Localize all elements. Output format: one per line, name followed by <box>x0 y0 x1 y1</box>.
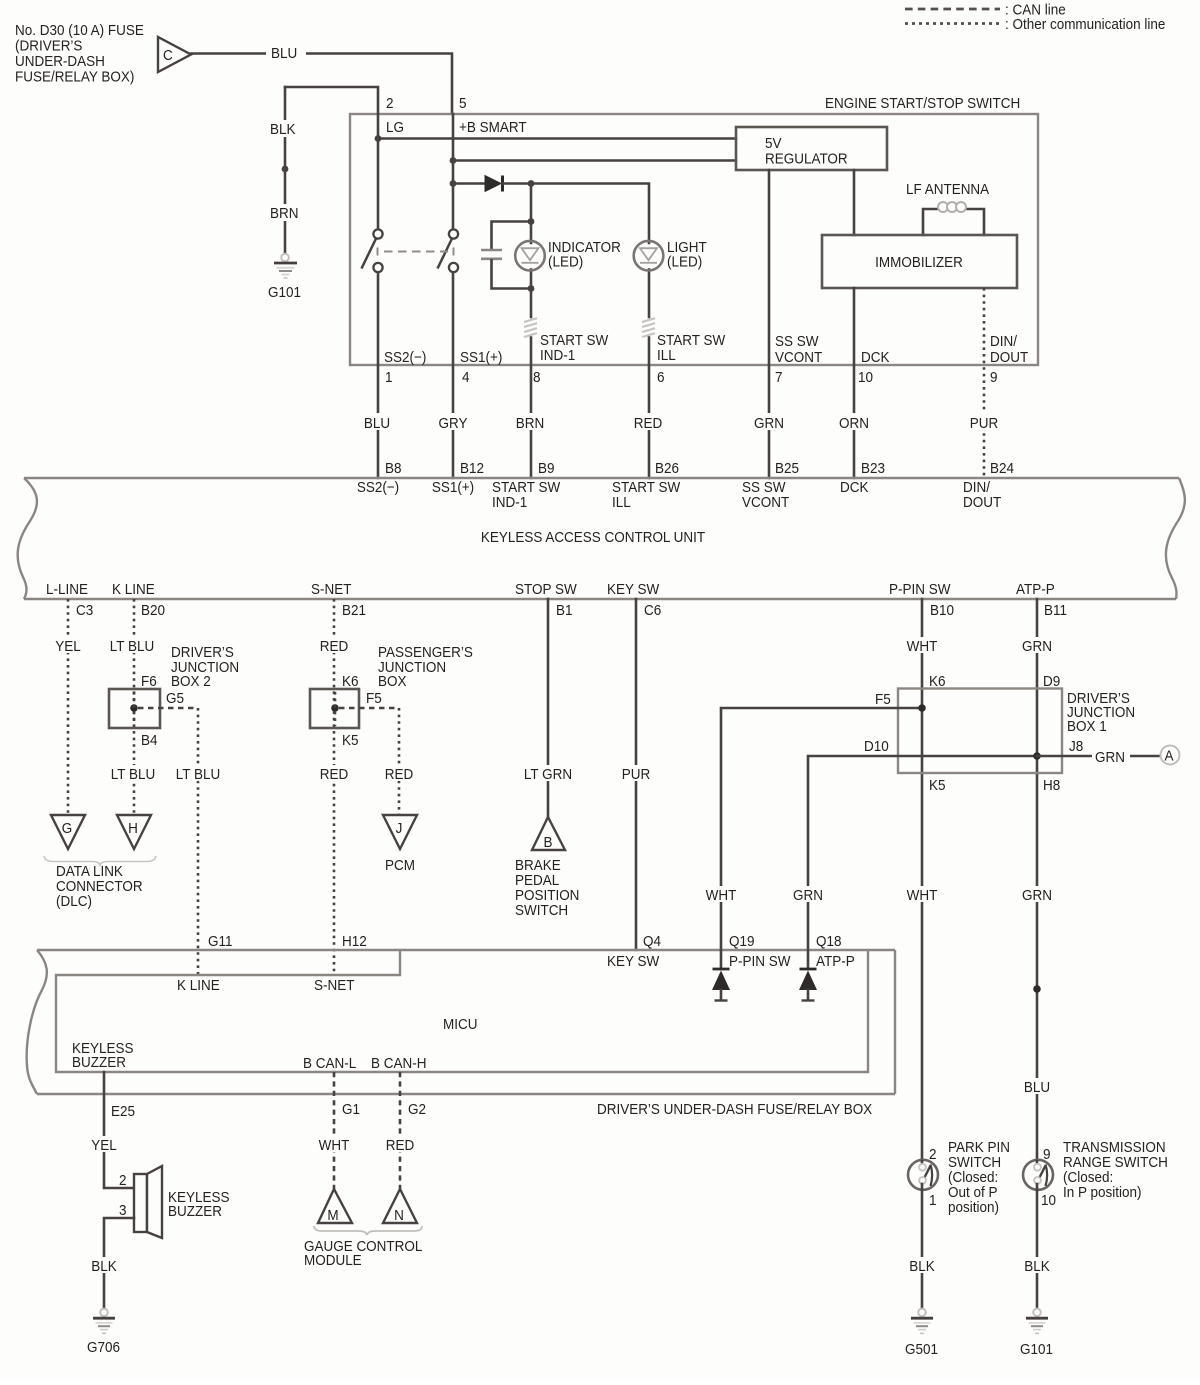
svg-text:B8: B8 <box>385 460 402 477</box>
legend CAN line sample <box>905 2 1066 19</box>
wire label LT BLU (to G11) <box>171 765 225 783</box>
svg-text:BUZZER: BUZZER <box>72 1054 126 1071</box>
svg-text:K LINE: K LINE <box>112 581 155 598</box>
svg-text:RED: RED <box>386 1137 414 1154</box>
svg-text:G5: G5 <box>166 690 184 707</box>
wire label BLK (park pin) <box>904 1257 940 1275</box>
wire label LT BLU (K LINE upper) <box>105 637 159 655</box>
svg-text:RED: RED <box>634 415 662 432</box>
keyless access control unit box <box>18 478 1185 599</box>
wire label RED (to H12) <box>316 765 353 783</box>
svg-text:B: B <box>543 834 552 851</box>
svg-text:2: 2 <box>929 1146 937 1163</box>
svg-text:F6: F6 <box>141 673 157 690</box>
connector B <box>532 817 565 851</box>
svg-text:+B SMART: +B SMART <box>459 119 527 136</box>
wire label BLK (trans range) <box>1019 1257 1055 1275</box>
svg-text:Q19: Q19 <box>729 933 755 950</box>
pin 5 label <box>459 95 527 136</box>
diode D1 <box>485 176 503 192</box>
svg-text:2: 2 <box>386 95 394 112</box>
wire light led to resistor <box>648 270 651 318</box>
svg-text:C: C <box>163 47 173 64</box>
svg-text:1: 1 <box>385 369 393 386</box>
svg-text:WHT: WHT <box>319 1137 350 1154</box>
svg-text:GRN: GRN <box>754 415 784 432</box>
wire label LT BLU (to H) <box>106 765 160 783</box>
svg-text:BOX 2: BOX 2 <box>171 673 211 690</box>
svg-text:LT BLU: LT BLU <box>176 766 220 783</box>
svg-text:D10: D10 <box>864 738 889 755</box>
wire J8 to connector A <box>1037 755 1159 758</box>
node capacitor top branch <box>528 218 535 225</box>
svg-text:9: 9 <box>1043 1146 1051 1163</box>
svg-text:F5: F5 <box>875 691 891 708</box>
switch SS1 <box>438 229 459 272</box>
wire B CAN-L dashed (G1) <box>333 1072 336 1189</box>
park pin switch SW1 <box>908 1160 938 1190</box>
connector A <box>1161 746 1180 765</box>
svg-text:10: 10 <box>858 369 873 386</box>
svg-text:N: N <box>394 1207 404 1224</box>
svg-text:LF ANTENNA: LF ANTENNA <box>906 181 990 198</box>
pin SS2(-) label <box>384 349 426 386</box>
svg-text:UNDER-DASH: UNDER-DASH <box>15 53 105 70</box>
svg-text:A: A <box>1164 748 1173 765</box>
svg-text:GRN: GRN <box>1022 638 1052 655</box>
immobilizer U2 <box>822 235 1017 288</box>
svg-text:YEL: YEL <box>91 1137 117 1154</box>
svg-text:YEL: YEL <box>55 638 81 655</box>
wire K LINE dotted <box>133 599 136 815</box>
pin DIN/DOUT label <box>990 333 1028 386</box>
5V regulator U1 <box>736 127 887 170</box>
svg-text:K LINE: K LINE <box>177 977 220 994</box>
svg-text:SS2(−): SS2(−) <box>384 349 426 366</box>
svg-text:GRN: GRN <box>793 887 823 904</box>
svg-text:B26: B26 <box>655 460 679 477</box>
wire SS2 lower to pin1/B8 <box>377 272 380 478</box>
wire label GRN (J8) <box>1092 747 1130 766</box>
svg-text:KEYLESS ACCESS CONTROL UNIT: KEYLESS ACCESS CONTROL UNIT <box>481 529 706 546</box>
svg-text:LT BLU: LT BLU <box>111 766 155 783</box>
wire label PUR (DIN/DOUT) <box>966 413 1002 432</box>
legend other communication line sample <box>905 16 1165 33</box>
svg-text:DOUT: DOUT <box>990 349 1028 366</box>
wire STOP SW <box>547 599 550 817</box>
LED light <box>634 239 707 270</box>
svg-text:2: 2 <box>119 1172 127 1189</box>
svg-text:P-PIN SW: P-PIN SW <box>729 953 791 970</box>
node box1 K6 splice <box>918 704 926 712</box>
wire label GRN (ATP-P upper) <box>1018 637 1056 655</box>
wire diode branch <box>453 182 485 185</box>
transmission range switch label <box>1063 1139 1168 1201</box>
connector J <box>383 815 417 849</box>
wire buzzer pin3 to ground <box>104 1218 134 1308</box>
svg-text:WHT: WHT <box>907 638 938 655</box>
svg-text:G101: G101 <box>1020 1341 1053 1358</box>
wire BLU from connector C to pin 5 <box>191 44 452 114</box>
svg-text:S-NET: S-NET <box>311 581 352 598</box>
wire LG to 5V regulator <box>378 137 736 140</box>
wire DIN/DOUT dotted to pin9/B24 <box>983 288 986 478</box>
engine start/stop switch box <box>350 95 1038 365</box>
junction dot BLK/BRN <box>282 166 289 173</box>
node box1 D9 splice <box>1033 752 1041 760</box>
svg-text:B25: B25 <box>775 460 799 477</box>
wire capacitor top branch <box>492 222 532 249</box>
svg-text:J: J <box>396 820 403 837</box>
svg-text:B1: B1 <box>556 602 573 619</box>
svg-text:1: 1 <box>929 1192 937 1209</box>
svg-text:PUR: PUR <box>622 766 650 783</box>
svg-text:BUZZER: BUZZER <box>168 1203 222 1220</box>
svg-text:DCK: DCK <box>840 479 869 496</box>
svg-text:LT GRN: LT GRN <box>524 766 572 783</box>
svg-text:KEY SW: KEY SW <box>607 953 660 970</box>
wire +B to 5V regulator <box>453 159 736 162</box>
node capacitor bottom junction <box>528 285 535 292</box>
svg-text:(DRIVER’S: (DRIVER’S <box>15 38 82 55</box>
wire trans range to ground <box>1036 1184 1039 1309</box>
svg-text:BLK: BLK <box>270 121 296 138</box>
svg-text:G: G <box>62 820 72 837</box>
svg-text:BLU: BLU <box>271 45 297 62</box>
svg-text:DOUT: DOUT <box>963 494 1001 511</box>
svg-text:(LED): (LED) <box>667 254 702 271</box>
svg-text:BRN: BRN <box>516 415 544 432</box>
svg-text:G706: G706 <box>87 1339 120 1356</box>
svg-text:BLK: BLK <box>909 1258 935 1275</box>
svg-text:B CAN-H: B CAN-H <box>371 1055 426 1072</box>
wire label GRN (Q18) <box>789 886 827 904</box>
wire label GRY (SS1) <box>434 413 472 432</box>
wire park pin to ground <box>921 1184 924 1309</box>
svg-text:WHT: WHT <box>706 887 737 904</box>
svg-text:position): position) <box>948 1199 999 1216</box>
svg-text:BLK: BLK <box>91 1258 117 1275</box>
svg-text:IMMOBILIZER: IMMOBILIZER <box>875 254 963 271</box>
wire DCK immobilizer to pin10/B23 <box>853 288 856 478</box>
wire S-NET dotted <box>333 599 336 975</box>
gauge module brace <box>314 1226 422 1235</box>
wire label PUR (KEY SW) <box>618 765 654 783</box>
wire label BLU (trans range) <box>1018 1078 1056 1096</box>
svg-text:MICU: MICU <box>443 1016 477 1033</box>
svg-text:S-NET: S-NET <box>314 977 355 994</box>
ground G501 <box>905 1309 938 1359</box>
svg-text:10: 10 <box>1041 1192 1056 1209</box>
svg-text:B20: B20 <box>141 602 165 619</box>
svg-text:IND-1: IND-1 <box>492 494 527 511</box>
unit pin SS SW VCONT <box>742 479 789 511</box>
connector H <box>117 815 151 849</box>
svg-text:K5: K5 <box>929 777 946 794</box>
wire diode to light led <box>503 184 650 244</box>
svg-text:H12: H12 <box>342 933 367 950</box>
connector M <box>318 1189 352 1224</box>
svg-text:B24: B24 <box>990 460 1014 477</box>
svg-text:DIN/: DIN/ <box>990 333 1017 350</box>
wire KEY SW <box>635 599 638 950</box>
svg-text:SS2(−): SS2(−) <box>357 479 399 496</box>
svg-text:BLU: BLU <box>1024 1079 1050 1096</box>
node pin5/regulator junction <box>450 157 457 164</box>
brake pedal position switch label <box>515 857 579 919</box>
svg-text:MODULE: MODULE <box>304 1252 362 1269</box>
svg-text:ILL: ILL <box>657 347 676 364</box>
svg-text:SS1(+): SS1(+) <box>460 349 502 366</box>
svg-text:SS SW: SS SW <box>775 333 819 350</box>
svg-text:B10: B10 <box>930 602 954 619</box>
wire F5 branch to Q19 <box>721 708 922 950</box>
svg-text:IND-1: IND-1 <box>540 347 575 364</box>
wire BLK/BRN to ground <box>268 87 304 254</box>
gauge control module label <box>304 1238 422 1269</box>
svg-text:C3: C3 <box>76 602 93 619</box>
svg-text:B23: B23 <box>861 460 885 477</box>
wire SS1 lower to pin4/B12 <box>452 272 455 478</box>
svg-text:G2: G2 <box>408 1101 426 1118</box>
svg-text:BRN: BRN <box>270 205 298 222</box>
connector C <box>158 37 191 72</box>
svg-text:B21: B21 <box>342 602 366 619</box>
wire E25 keyless buzzer <box>104 1072 134 1188</box>
node indicator branch <box>528 180 535 187</box>
fuse D30 label <box>15 22 144 85</box>
data link connector label <box>56 863 143 910</box>
ground G101 (upper) <box>268 254 301 302</box>
wire indicator drop <box>530 184 533 244</box>
wire K line through box2 <box>133 692 136 726</box>
svg-text:ENGINE START/STOP SWITCH: ENGINE START/STOP SWITCH <box>825 95 1020 112</box>
svg-text:9: 9 <box>990 369 998 386</box>
wire label RED (S-NET upper) <box>316 637 353 655</box>
svg-text:LG: LG <box>386 119 404 136</box>
wire label RED (ILL) <box>630 413 667 432</box>
wire label LT GRN <box>521 765 577 783</box>
wire label RED (CAN-H) <box>382 1136 419 1154</box>
svg-text:(DLC): (DLC) <box>56 893 92 910</box>
micu pin KEYLESS BUZZER <box>72 1040 133 1071</box>
pin DCK label <box>858 349 890 386</box>
ganged switch link (dashed) <box>378 248 454 256</box>
resistor START SW IND-1 <box>524 318 537 337</box>
svg-text:P-PIN SW: P-PIN SW <box>889 581 951 598</box>
svg-text:: Other communication line: : Other communication line <box>1005 16 1165 33</box>
unit pin START SW ILL <box>612 479 681 511</box>
svg-text:In P position): In P position) <box>1063 1184 1141 1201</box>
svg-text:RED: RED <box>385 766 413 783</box>
svg-text:J8: J8 <box>1069 738 1083 755</box>
svg-text:BOX 1: BOX 1 <box>1067 718 1107 735</box>
svg-text:4: 4 <box>462 369 470 386</box>
svg-text:BOX: BOX <box>378 673 407 690</box>
resistor START SW ILL <box>642 318 655 337</box>
node pin2/regulator junction <box>375 135 382 142</box>
capacitor C1 <box>481 250 502 259</box>
node junction box 2 splice <box>130 704 138 712</box>
wire label RED (to J) <box>381 765 418 783</box>
wire label YEL (L-LINE) <box>51 637 86 655</box>
wire ATP-P <box>1036 599 1039 1164</box>
wire LED to resistor <box>530 270 533 318</box>
svg-text:C6: C6 <box>644 602 661 619</box>
svg-text:M: M <box>327 1207 338 1224</box>
svg-text:B9: B9 <box>538 460 555 477</box>
wire D10 branch to Q18 <box>808 756 1037 950</box>
node passenger junction box splice <box>331 704 339 712</box>
svg-text:ATP-P: ATP-P <box>816 953 855 970</box>
svg-text:G501: G501 <box>905 1341 938 1358</box>
DLC brace <box>44 856 156 865</box>
svg-text:Q18: Q18 <box>816 933 842 950</box>
svg-text:FUSE/RELAY BOX): FUSE/RELAY BOX) <box>15 69 134 86</box>
svg-text:KEY SW: KEY SW <box>607 581 660 598</box>
svg-text:WHT: WHT <box>907 887 938 904</box>
svg-text:BLK: BLK <box>1024 1258 1050 1275</box>
keyless buzzer BZ1 <box>134 1166 229 1238</box>
svg-text:RED: RED <box>320 638 348 655</box>
svg-text:8: 8 <box>533 369 541 386</box>
wire capacitor bottom branch <box>492 260 532 288</box>
wire L-LINE dotted <box>67 599 70 815</box>
MICU box <box>56 950 868 1072</box>
svg-text:H8: H8 <box>1043 777 1060 794</box>
wire S-NET through box <box>334 692 337 726</box>
wire pin5 vertical <box>452 114 455 230</box>
node pin5/diode junction <box>450 180 457 187</box>
wire label WHT (CAN-L) <box>315 1136 353 1154</box>
diode Q19 (P-PIN SW) <box>712 950 730 1001</box>
wire label BRN (IND-1) <box>511 413 549 432</box>
park pin switch label <box>948 1139 1010 1216</box>
svg-text:E25: E25 <box>111 1103 135 1120</box>
svg-text:SS1(+): SS1(+) <box>432 479 474 496</box>
wire label ORN (DCK) <box>835 413 873 432</box>
ground G101 (lower) <box>1020 1309 1053 1359</box>
svg-text:BLU: BLU <box>364 415 390 432</box>
wire label BLU (SS2) <box>359 413 396 432</box>
LED indicator <box>515 239 621 270</box>
wire pin2 vertical <box>377 114 380 230</box>
svg-text:G11: G11 <box>208 933 233 950</box>
wire label GRN (VCONT) <box>750 413 788 432</box>
svg-text:B12: B12 <box>460 460 484 477</box>
svg-text:DCK: DCK <box>861 349 890 366</box>
svg-text:G101: G101 <box>268 284 301 301</box>
svg-text:RED: RED <box>320 766 348 783</box>
svg-text:SWITCH: SWITCH <box>515 902 568 919</box>
svg-text:K6: K6 <box>342 673 359 690</box>
wire label WHT (Q19) <box>702 886 740 904</box>
svg-text:PUR: PUR <box>970 415 998 432</box>
svg-text:GRN: GRN <box>1095 749 1125 766</box>
passenger's junction box <box>310 644 473 728</box>
LF antenna coil L1 <box>923 202 984 235</box>
svg-text:VCONT: VCONT <box>775 349 822 366</box>
wire label GRN (trans range) <box>1018 886 1056 904</box>
wire P-PIN SW <box>921 599 924 1164</box>
connector N <box>383 1189 417 1224</box>
wire G5 branch <box>138 707 198 709</box>
svg-text:5: 5 <box>459 95 467 112</box>
wire resistor to pin8/B9 <box>530 338 533 479</box>
svg-text:B4: B4 <box>141 732 158 749</box>
svg-text:G1: G1 <box>342 1101 360 1118</box>
svg-text:6: 6 <box>657 369 665 386</box>
unit pin DIN/DOUT <box>963 479 1001 511</box>
svg-text:(LED): (LED) <box>548 254 583 271</box>
svg-text:GRY: GRY <box>439 415 468 432</box>
diode Q18 (ATP-P) <box>799 950 817 1001</box>
svg-text:L-LINE: L-LINE <box>46 581 88 598</box>
svg-text:VCONT: VCONT <box>742 494 789 511</box>
pin 2 label <box>386 95 404 136</box>
svg-text:F5: F5 <box>366 690 382 707</box>
svg-text:DRIVER’S UNDER-DASH FUSE/RELAY: DRIVER’S UNDER-DASH FUSE/RELAY BOX <box>597 1101 873 1118</box>
wire LG branch to pin 2 <box>285 87 378 114</box>
pin SS SW VCONT label <box>775 333 822 386</box>
svg-text:ILL: ILL <box>612 494 631 511</box>
wire regulator to pin7/B25 <box>768 170 771 478</box>
svg-text:5V: 5V <box>765 135 782 152</box>
switch SS2 <box>362 229 383 272</box>
svg-text:STOP SW: STOP SW <box>515 581 577 598</box>
wire label BLK (buzzer) <box>86 1257 122 1275</box>
unit pin START SW IND-1 <box>492 479 561 511</box>
transmission range switch SW2 <box>1023 1160 1053 1190</box>
driver's under-dash fuse/relay box <box>27 950 895 1118</box>
svg-text:K5: K5 <box>342 732 359 749</box>
svg-text:7: 7 <box>775 369 783 386</box>
ground G706 <box>87 1309 120 1357</box>
wire label YEL (buzzer) <box>87 1136 122 1154</box>
svg-text:ORN: ORN <box>839 415 869 432</box>
svg-text:REGULATOR: REGULATOR <box>765 151 848 168</box>
driver's junction box 1 <box>898 689 1135 774</box>
svg-text:B CAN-L: B CAN-L <box>303 1055 356 1072</box>
svg-text:No. D30 (10 A) FUSE: No. D30 (10 A) FUSE <box>15 22 144 39</box>
svg-text:PCM: PCM <box>385 857 415 874</box>
node ATP-P wire splice <box>1033 985 1041 993</box>
wire B CAN-H dashed (G2) <box>399 1072 402 1189</box>
svg-text:B11: B11 <box>1044 602 1067 619</box>
connector G <box>51 815 85 849</box>
svg-text:Q4: Q4 <box>643 933 661 950</box>
svg-text:ATP-P: ATP-P <box>1016 581 1055 598</box>
svg-text:H: H <box>128 820 138 837</box>
wire regulator to immobilizer <box>853 170 856 235</box>
svg-text:3: 3 <box>119 1202 127 1219</box>
driver's junction box 2 <box>109 644 239 728</box>
svg-text:LT BLU: LT BLU <box>110 638 154 655</box>
wire F5 branch to PCM <box>339 707 399 709</box>
svg-text:GRN: GRN <box>1022 887 1052 904</box>
wire resistor to pin6/B26 <box>648 338 651 479</box>
pin SS1(+) label <box>460 349 502 386</box>
wire label WHT (P-PIN SW upper) <box>903 637 941 655</box>
wire label WHT (park pin) <box>903 886 941 904</box>
